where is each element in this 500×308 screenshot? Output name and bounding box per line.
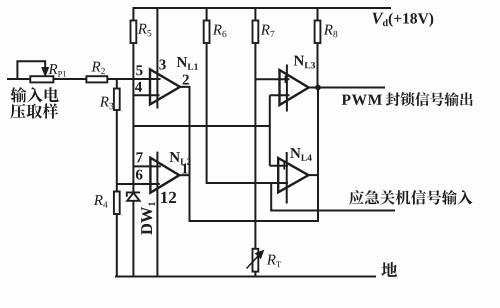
junction dot output node: [315, 85, 321, 91]
label input voltage sampling line 2: [10, 103, 58, 118]
label ground: [381, 262, 397, 277]
wire R8 top lead: [317, 7, 319, 22]
zener diode DW1: [127, 192, 140, 276]
op-amp NL2: [150, 158, 179, 193]
pin 1 label: [182, 164, 188, 174]
wire emergency shutdown signal input: [271, 183, 395, 211]
op-amp NL1: [150, 69, 180, 104]
resistor R7: [253, 21, 259, 44]
label NL3: [294, 56, 315, 69]
wire NL4 output: [309, 174, 319, 176]
thermistor RT arrow: [247, 250, 265, 269]
label RT: [267, 255, 281, 267]
label PWM blocking signal output: [342, 92, 473, 106]
label DW1 rotated: [141, 202, 155, 235]
label NL4: [290, 148, 311, 161]
wire PWM output: [318, 87, 385, 89]
pin 3 label: [159, 59, 165, 69]
wire NL1 output to wired-OR bus: [180, 87, 318, 221]
ground rail: [115, 276, 376, 278]
label R6: [213, 25, 227, 38]
resistor R6: [204, 21, 210, 44]
resistor R3: [114, 89, 120, 111]
potentiometer RP1 wiper arrow: [17, 61, 48, 79]
wire RT bottom lead: [254, 272, 256, 277]
label R4: [94, 195, 108, 207]
thermistor RT body: [253, 249, 259, 272]
resistor R8: [315, 21, 321, 44]
wire R6 to NL4 inverting input: [207, 44, 288, 183]
label R7: [261, 25, 275, 37]
pin 12 label: [161, 192, 176, 203]
resistor R4: [114, 192, 120, 215]
wire NL3 power pins: [286, 65, 288, 112]
pin 7 label: [136, 152, 142, 162]
pin 5 label: [136, 65, 142, 75]
wire R6 top lead: [206, 7, 208, 22]
wire R8 to output node: [317, 44, 319, 88]
wire NL1 inverting input pin 4: [133, 94, 159, 96]
pin 4 label: [135, 82, 142, 92]
label R5: [138, 24, 152, 37]
wire R7 top lead: [254, 7, 256, 22]
resistor R2: [86, 76, 107, 82]
wire NL1 non-inverting input pin 5: [133, 78, 150, 80]
label R2: [91, 62, 104, 74]
label NL2: [170, 152, 191, 165]
wire input line: [7, 78, 161, 80]
resistor R5: [131, 21, 137, 44]
label input voltage sampling line 1: [11, 87, 59, 102]
wire NL2 non-inverting input pin 7: [133, 165, 160, 167]
wire op-amp NL1 pin 3 to rail: [156, 7, 158, 108]
wire reference node to NL3 NL4 inputs: [133, 95, 289, 166]
label RP1: [48, 64, 66, 76]
wire NL4 power pins: [286, 152, 288, 204]
wire R7 down to thermistor RT: [254, 44, 256, 249]
power rail +18V: [133, 7, 392, 9]
pin 6 label: [136, 170, 143, 180]
wire R3 R4 divider chain: [116, 79, 118, 277]
pin 2 label: [183, 75, 189, 85]
label Vd +18V: [372, 13, 433, 27]
label R3: [100, 97, 114, 110]
wire NL2 output: [179, 174, 190, 176]
wire NL2 power pins and pin 12 to ground: [156, 152, 158, 277]
wire NL2 inverting input pin 6: [117, 183, 160, 185]
wire R5 top lead: [132, 7, 134, 22]
wire reference node vertical from R5 to DW1: [132, 44, 134, 192]
label R8: [324, 25, 338, 38]
wire NL3 output: [309, 87, 318, 89]
op-amp NL4: [278, 158, 308, 192]
potentiometer RP1 body: [30, 76, 53, 82]
wire NL3 non-inverting input from R7 RT divider: [255, 78, 289, 80]
op-amp NL3: [280, 70, 309, 105]
label emergency shutdown signal input: [349, 190, 472, 205]
label NL1: [177, 57, 198, 70]
